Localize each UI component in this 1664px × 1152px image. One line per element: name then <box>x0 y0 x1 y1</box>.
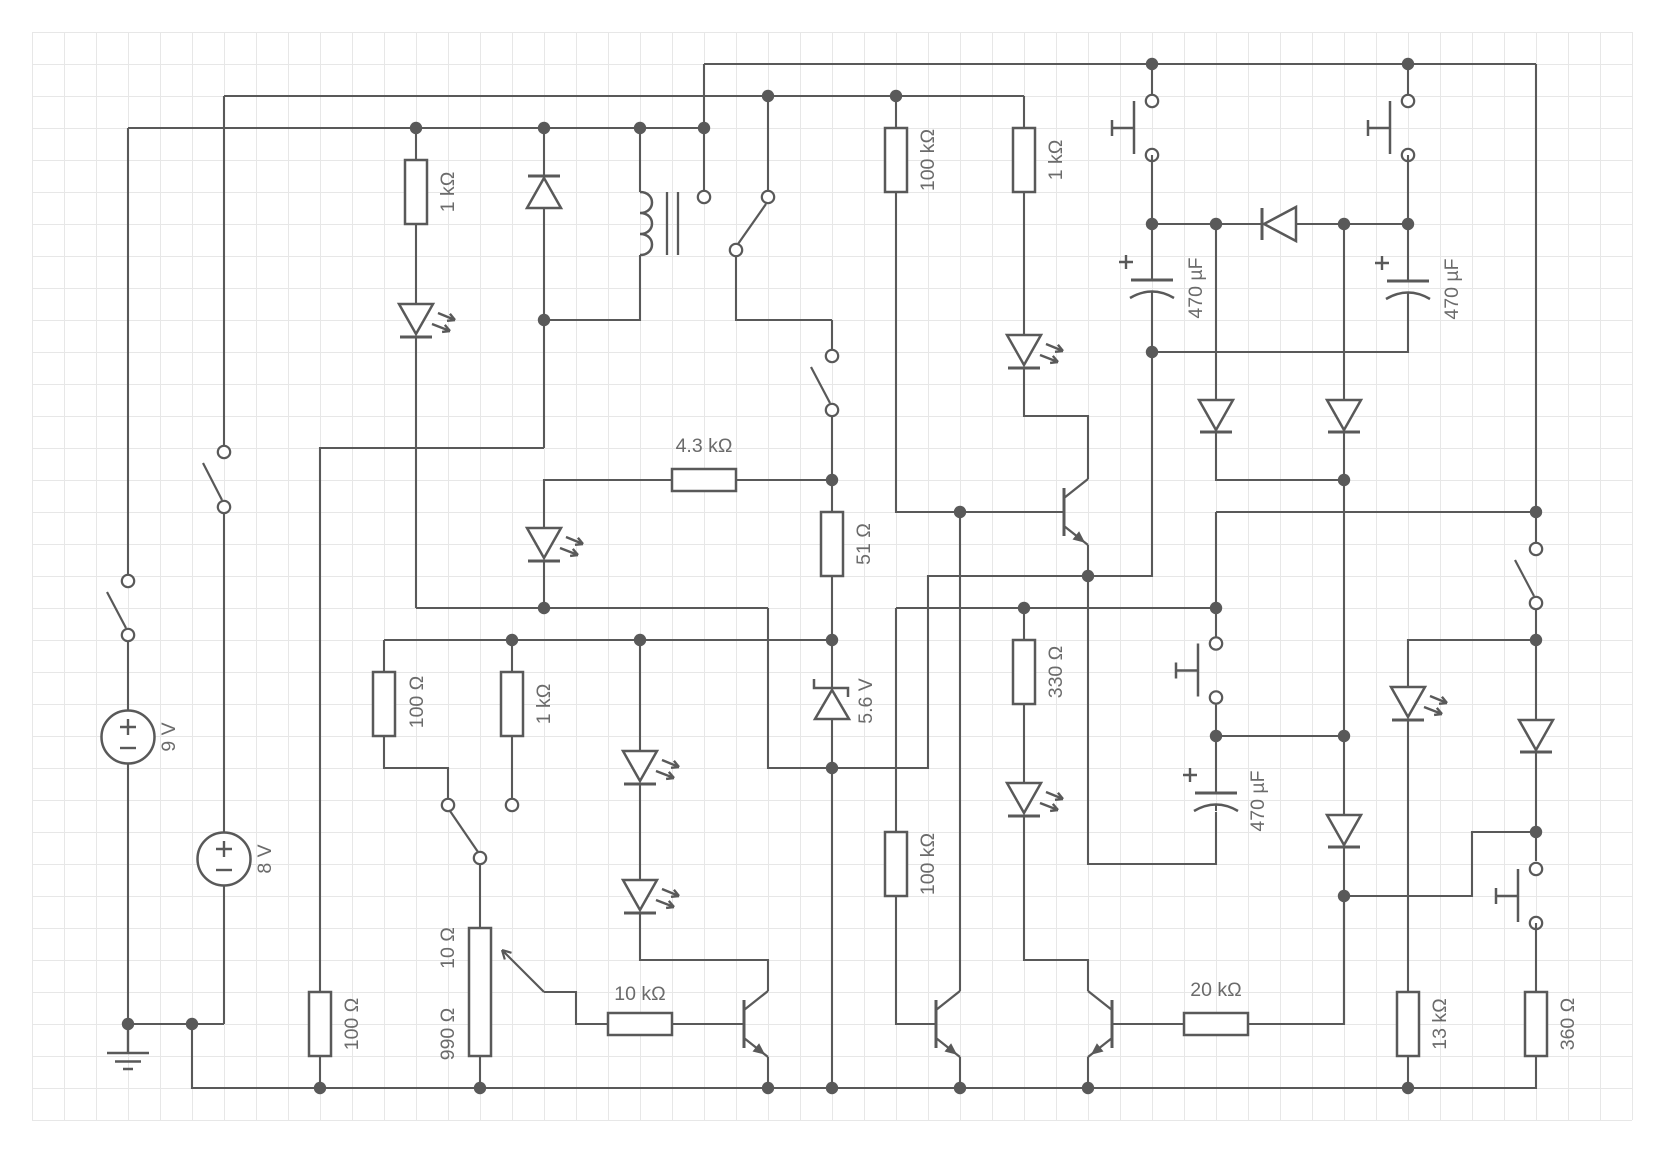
svg-text:470 µF: 470 µF <box>1247 770 1269 831</box>
wire y=448 west + x=320 down <box>320 448 544 992</box>
svg-text:1 kΩ: 1 kΩ <box>533 684 555 725</box>
led LED5 <box>1007 335 1063 368</box>
svg-text:470 µF: 470 µF <box>1441 258 1463 319</box>
pushbutton PB3 <box>1176 637 1222 703</box>
resistor R15 360 Ω <box>1525 992 1579 1056</box>
node junction (1344,896) <box>1338 890 1350 902</box>
wire y=640 right <box>1408 640 1536 687</box>
zener diode DZ triangle <box>815 690 849 719</box>
wire R8 bottom to open terminal <box>511 736 513 798</box>
wire 10k to Q2 base <box>672 1023 744 1025</box>
node junction (1088,576) <box>1082 570 1094 582</box>
node junction (832,1088) <box>826 1082 838 1094</box>
wire x=1344 mid <box>1343 480 1345 815</box>
wire zener bottom to rail <box>831 719 833 1088</box>
switch SW4 top terminal <box>1530 543 1542 555</box>
node junction (896,96) <box>890 90 902 102</box>
wire rail y=128 <box>128 127 704 129</box>
led LED4 <box>623 880 679 913</box>
node junction (128,1024) <box>122 1018 134 1030</box>
svg-text:100 Ω: 100 Ω <box>406 676 428 729</box>
capacitor C1 470uF <box>1119 255 1207 319</box>
wire to SW6 top <box>831 320 833 350</box>
node junction (544,128) <box>538 122 550 134</box>
wire 9V bottom <box>127 764 129 1025</box>
switch SW5 SPDT top: lever <box>738 204 766 244</box>
led LED2 mid-left <box>527 528 583 561</box>
wire y=224 left of D4 <box>1152 223 1262 225</box>
node junction (1344,736) <box>1338 730 1350 742</box>
transistor Q2 <box>744 991 768 1057</box>
wire x=704 from top rail down to SPDT throw <box>703 64 705 192</box>
node junction (1408,1088) <box>1402 1082 1414 1094</box>
wire LED3 top lead <box>639 640 641 751</box>
inductor L1 winding <box>640 192 652 255</box>
wire 51ohm bottom to zener <box>831 576 833 688</box>
svg-text:100 kΩ: 100 kΩ <box>917 129 939 191</box>
pushbutton PB1 <box>1112 95 1158 161</box>
switch SW1 lever <box>203 463 222 500</box>
wire y=352 cap link <box>1152 292 1408 352</box>
switch SW4 bottom terminal <box>1530 597 1542 609</box>
wire R7 top lead <box>383 640 385 672</box>
switch SW3 throw terminal right <box>506 799 518 811</box>
wire D6 bottom <box>1535 752 1537 861</box>
wire SPDT common down and east <box>736 257 832 320</box>
node junction (1536,640) <box>1530 634 1542 646</box>
wire y=512 right segment <box>1216 512 1536 608</box>
wire 330 to LED6 <box>1023 704 1025 783</box>
svg-text:9 V: 9 V <box>158 722 180 751</box>
svg-text:1 kΩ: 1 kΩ <box>437 172 459 213</box>
transistor Q4 <box>1088 991 1112 1057</box>
node junction (1152,64) <box>1146 58 1158 70</box>
wire R12 top lead <box>1023 608 1025 640</box>
wire emitter net to cap C3 <box>1088 576 1216 864</box>
transistor Q1 <box>1064 479 1088 545</box>
wire R1 to LED1 <box>415 224 417 304</box>
node junction (1024,608) <box>1018 602 1030 614</box>
potentiometer P1 wiper arrow <box>502 950 544 992</box>
wire R9 bottom lead <box>319 1056 321 1088</box>
pushbutton PB2 <box>1368 95 1414 161</box>
wire x=896 lower branch <box>895 608 897 832</box>
svg-text:360 Ω: 360 Ω <box>1557 998 1579 1051</box>
node junction (768,96) <box>762 90 774 102</box>
switch SW1 top terminal <box>218 446 230 458</box>
resistor R8 1 kΩ <box>501 672 555 736</box>
wire 20k east to x=1344 riser <box>1248 896 1344 1024</box>
resistor R11 100 kΩ <box>885 832 939 896</box>
wire y=1024 left <box>128 1023 224 1025</box>
wire R7 bottom to SW3 throw <box>384 736 448 798</box>
switch SW5 throw terminal right <box>762 191 774 203</box>
wire R3 bottom to LED5 <box>1023 192 1025 335</box>
pushbutton PB4 <box>1496 863 1542 929</box>
wire D1 bottom to y=448 <box>543 208 545 448</box>
switch SW3 common terminal <box>474 852 486 864</box>
switch SW2 top terminal <box>122 575 134 587</box>
wire 4.3k left lead + LED2 feed <box>544 480 672 528</box>
switch SW5 throw terminal left <box>698 191 710 203</box>
diode D5 <box>1327 815 1361 847</box>
switch SW4 lever <box>1515 560 1534 596</box>
node junction (1216,608) <box>1210 602 1222 614</box>
wire R2 bottom long <box>896 192 1064 512</box>
wire SW1 to 8V <box>223 514 225 833</box>
wire R8 top lead <box>511 640 513 672</box>
wire L1 top lead <box>639 128 641 192</box>
wire L1 bottom to D1 branch <box>544 255 640 320</box>
node junction (1344,224) <box>1338 218 1350 230</box>
wire SW4 bottom to node <box>1535 610 1537 640</box>
resistor R14 13 kΩ <box>1397 992 1451 1056</box>
wire D6 top lead <box>1535 640 1537 720</box>
wire corner x=1024 to R3 top <box>1023 96 1025 128</box>
wire C3 top lead <box>1215 736 1217 793</box>
wire pot bottom to rail <box>479 1056 481 1088</box>
diode D6 <box>1519 720 1553 752</box>
wire Q3 emitter to rail <box>959 1057 961 1088</box>
node junction (1152,224) <box>1146 218 1158 230</box>
resistor R5 4.3 kΩ <box>672 435 736 491</box>
node junction (1536,512) <box>1530 506 1542 518</box>
wire SW6 bottom to node <box>831 417 833 480</box>
svg-text:5.6 V: 5.6 V <box>855 678 877 724</box>
resistor R6 51 Ω <box>821 512 875 576</box>
wire x=768 SPDT right throw feed <box>767 96 769 191</box>
wire 13k bottom to rail <box>1407 1056 1409 1088</box>
node junction (640,640) <box>634 634 646 646</box>
resistor R13 20 kΩ <box>1184 979 1248 1035</box>
wire top rail y=64 <box>704 63 1536 65</box>
wire wiper to 10k <box>544 992 608 1024</box>
wire y=736 <box>1216 735 1344 737</box>
node junction (192,1024) <box>186 1018 198 1030</box>
wire 51ohm top lead <box>831 480 833 512</box>
svg-text:1 kΩ: 1 kΩ <box>1045 140 1067 181</box>
wire LED5 to Q1 collector <box>1024 368 1088 479</box>
svg-text:10 Ω: 10 Ω <box>437 927 459 969</box>
svg-text:8 V: 8 V <box>254 844 276 873</box>
capacitor C2 470uF <box>1375 256 1463 320</box>
svg-text:330 Ω: 330 Ω <box>1045 646 1067 699</box>
wire C1 top lead <box>1151 224 1153 280</box>
wire Q4 emitter to rail <box>1087 1057 1089 1088</box>
switch SW2 lever <box>107 592 126 628</box>
node junction (544,608) <box>538 602 550 614</box>
resistor R9 100 Ω <box>309 992 363 1056</box>
wire SW2 bottom to 9V <box>127 642 129 711</box>
wire x=224 down to switch SW1 <box>223 96 225 446</box>
wire LED4 to Q2 collector <box>640 913 768 991</box>
switch SW3 throw terminal left <box>442 799 454 811</box>
node junction (544,320) <box>538 314 550 326</box>
wire y=608 left segment <box>416 607 768 609</box>
node junction (1408,224) <box>1402 218 1414 230</box>
led LED6 <box>1007 783 1063 816</box>
node junction (832,768) <box>826 762 838 774</box>
svg-text:51 Ω: 51 Ω <box>853 523 875 565</box>
node junction (512,640) <box>506 634 518 646</box>
resistor R3 1 kΩ <box>1013 128 1067 192</box>
node junction (1536,832) <box>1530 826 1542 838</box>
svg-text:990 Ω: 990 Ω <box>437 1008 459 1061</box>
resistor R1 1 kΩ <box>405 160 459 224</box>
switch SW2 bottom terminal <box>122 629 134 641</box>
svg-text:20 kΩ: 20 kΩ <box>1190 979 1241 1001</box>
node junction (960,512) <box>954 506 966 518</box>
node junction (768,1088) <box>762 1082 774 1094</box>
capacitor C3 470uF <box>1183 768 1269 832</box>
wire PB2 bottom to y=224 <box>1407 155 1409 224</box>
wire pushbutton PB2 top <box>1407 64 1409 96</box>
wire PB3 bottom <box>1215 704 1217 736</box>
node junction (1088,1088) <box>1082 1082 1094 1094</box>
wire D5 bottom to 20k corner <box>1343 847 1345 1024</box>
wire Q4 base to 20k <box>1112 1023 1184 1025</box>
switch SW5 common terminal <box>730 244 742 256</box>
node junction (1152,352) <box>1146 346 1158 358</box>
node junction (960,1088) <box>954 1082 966 1094</box>
voltage source V1 9V <box>102 711 181 764</box>
node junction (416,128) <box>410 122 422 134</box>
wire rail y=96 <box>224 95 1024 97</box>
diode D1 <box>527 176 561 208</box>
diode D3 <box>1327 400 1361 432</box>
switch SW3 lever <box>450 811 478 852</box>
node junction (1408,64) <box>1402 58 1414 70</box>
resistor R10 10 kΩ <box>608 983 672 1035</box>
svg-text:4.3 kΩ: 4.3 kΩ <box>676 435 733 457</box>
voltage source V2 8V <box>198 833 277 886</box>
wire LED7 to 13k <box>1407 720 1409 992</box>
zener diode DZ 5.6V bar <box>814 679 848 697</box>
resistor R2 100 kΩ <box>885 128 939 192</box>
wire D3 bottom <box>1343 432 1345 480</box>
wire R2 top lead <box>895 96 897 128</box>
led LED3 <box>623 751 679 784</box>
inductor L1 core bars <box>667 192 678 255</box>
led LED1 <box>399 304 455 337</box>
switch SW1 bottom terminal <box>218 501 230 513</box>
wire PB3 top lead <box>1215 608 1217 637</box>
wire LED3 to LED4 <box>639 784 641 880</box>
node junction (1216,224) <box>1210 218 1222 230</box>
switch SW6 bottom terminal <box>826 404 838 416</box>
resistor R7 100 Ω <box>373 672 428 736</box>
wire C2 top lead <box>1407 224 1409 281</box>
wire pushbutton PB1 top <box>1151 64 1153 96</box>
led LED7 <box>1391 687 1447 720</box>
svg-text:10 kΩ: 10 kΩ <box>614 983 665 1005</box>
wire D2 top lead <box>1215 224 1217 400</box>
switch SW6 lever <box>811 367 830 403</box>
wire LED1 down to y=608 <box>415 337 417 608</box>
wire 8V bottom <box>223 885 225 1024</box>
wire LED2 to y=608 <box>543 561 545 608</box>
wire D2 bottom corner east <box>1216 432 1344 480</box>
wire y=224 right of D4 <box>1296 223 1408 225</box>
wire PB4 bottom to 360 <box>1535 923 1537 992</box>
node junction (480,1088) <box>474 1082 486 1094</box>
node junction (640,128) <box>634 122 646 134</box>
wire x=128 down to switch SW2 <box>127 128 129 575</box>
wire PB1 bottom to y=224 <box>1151 155 1153 224</box>
node junction (320,1088) <box>314 1082 326 1094</box>
node junction (832,480) <box>826 474 838 486</box>
potentiometer P1 body <box>469 928 491 1056</box>
wire y=608 right segment <box>896 607 1216 609</box>
wire D1 top lead <box>543 128 545 176</box>
node junction (832,640) <box>826 634 838 646</box>
node junction (1344,480) <box>1338 474 1350 486</box>
diode D2 <box>1199 400 1233 432</box>
wire x=960 to Q3 collector <box>959 512 961 991</box>
diode D4 pointing left <box>1262 207 1296 241</box>
switch SW6 top terminal <box>826 350 838 362</box>
wire R1 top lead <box>415 128 417 160</box>
svg-text:100 Ω: 100 Ω <box>341 998 363 1051</box>
node junction (704,128) <box>698 122 710 134</box>
transistor Q3 <box>936 991 960 1057</box>
svg-text:13 kΩ: 13 kΩ <box>1429 998 1451 1049</box>
resistor R12 330 Ω <box>1013 640 1067 704</box>
wire D3 top lead <box>1343 224 1345 400</box>
wire bottom rail <box>192 1024 1536 1088</box>
svg-text:100 kΩ: 100 kΩ <box>917 833 939 895</box>
wire emitter net y=576 <box>768 292 1152 768</box>
node junction (1216,736) <box>1210 730 1222 742</box>
wire Q2 emitter to rail <box>767 1057 769 1088</box>
ground symbol <box>107 1024 149 1069</box>
wire SW3 common to pot <box>479 865 481 928</box>
svg-text:470 µF: 470 µF <box>1185 257 1207 318</box>
wire x=1536 right trunk down <box>1535 64 1537 543</box>
wire R11 bottom to Q3 base <box>896 896 936 1024</box>
wire y=640 bus <box>384 639 832 641</box>
wire Q1 emitter down <box>1087 545 1089 576</box>
wire LED6 to Q4 collector <box>1024 816 1088 991</box>
wire y=832 link west <box>1344 832 1536 896</box>
wire 4.3k right lead <box>736 479 832 481</box>
